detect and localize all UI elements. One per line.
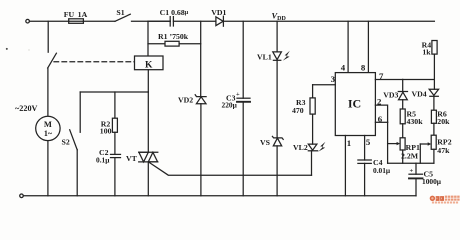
wire: R3 to VL2 [312,114,314,144]
scan speck [6,48,8,50]
svg-text:0.01μ: 0.01μ [373,166,391,175]
svg-text:3: 3 [331,74,336,84]
wire: pin1 to bottom rail [344,136,346,196]
wire: C2 to bottom rail [114,158,116,196]
capacitor C3 220u polarized [222,91,251,110]
svg-text:+: + [410,167,414,174]
svg-text:20k: 20k [437,117,450,126]
wire: pin3 to R3 [313,84,336,86]
potentiometer RP1 2.2M [388,138,420,161]
motor M 1~ [36,116,60,140]
wire: C3 to bottom rail [242,102,244,196]
wire: R5 to RP1 [402,124,404,138]
wire: node to C5 [415,163,417,174]
wire: R2 to C2 [114,132,116,154]
wire: fuse to S1 [83,20,115,22]
svg-text:~220V: ~220V [15,104,38,113]
wire: pin3 branch down through R3 [312,85,314,98]
svg-text:C1 0.68μ: C1 0.68μ [160,8,189,17]
svg-text:1000μ: 1000μ [422,177,442,186]
wire: rail down to relay contact [47,21,49,52]
svg-text:VT: VT [126,154,138,163]
wire: triac gate to VL2 branch [149,163,311,176]
switch S1 [115,8,130,21]
wire: VS to bottom rail [276,146,278,196]
wire: VDD down to VL1 [276,21,278,52]
fuse FU 1A [64,10,88,23]
wire: pin5 to C4 [364,136,366,161]
wire: pin2 step [375,105,387,122]
resistor R1 750k [148,32,201,46]
wire: VD4 to R6 [433,96,435,110]
wire: pin2/6 node down [387,122,389,163]
wire: RP2 to node wire [433,149,435,163]
svg-text:VD3: VD3 [383,91,398,100]
dashed link contact to coil K [54,61,135,63]
LED VL1 [257,51,290,62]
wire: rail down to IC pin4 [347,21,349,72]
svg-text:4: 4 [341,63,346,73]
wire: bottom node horizontal [388,162,434,164]
svg-text:100: 100 [100,126,112,135]
wire: K to junction [147,70,149,92]
svg-text:1: 1 [347,138,351,148]
watermark logo [430,196,460,204]
svg-text:VL1: VL1 [257,53,272,62]
zener diode VD2 [178,95,206,105]
op-amp/timer IC [335,73,375,136]
wire: C5 to bottom rail [415,178,417,195]
svg-text:FU 1A: FU 1A [64,10,88,19]
diode VD3 [383,91,407,100]
potentiometer RP2 47k [420,135,451,163]
wire: pin7 to R4 line [375,79,434,81]
resistor R3 470 [292,98,315,115]
svg-text:S2: S2 [62,138,70,147]
capacitor C2 0.1u [96,148,121,164]
wire: rail down to C3 [242,21,244,98]
capacitor C1 0.68u [160,8,189,26]
wire: pin6 [375,121,387,123]
wire: triac to bottom rail [147,162,149,196]
triac VT [126,152,158,163]
node: top-left input terminal [26,19,30,23]
svg-text:1k: 1k [422,48,431,57]
resistor R5 430k [400,109,423,126]
svg-text:K: K [145,61,153,71]
wire: RP1 to node wire [402,150,404,163]
svg-text:2.2M: 2.2M [401,151,419,160]
svg-text:VD1: VD1 [211,8,226,17]
svg-text:VDD: VDD [272,11,287,23]
wire: VD3 to R5 [402,100,404,109]
wire: VL1 to VS [276,60,278,138]
wire: C1 left branch down to R1 [148,20,170,22]
capacitor C4 0.01u [358,158,391,175]
resistor R2 100 [100,118,118,135]
relay coil K [135,56,164,71]
svg-text:IC: IC [348,97,361,111]
svg-text:1~: 1~ [44,129,53,138]
resistor R4 1k [422,41,438,57]
svg-text:47k: 47k [437,146,450,155]
wire: R4 to pin7 wire [433,54,435,89]
svg-text:8: 8 [361,63,366,73]
wire: C4 to bottom rail [364,163,366,195]
svg-text:M: M [44,119,52,129]
node: bottom-left terminal [20,194,24,198]
resistor R6 20k [431,110,450,126]
wire: R6 to RP2 [433,123,435,135]
diode VD4 [412,89,439,98]
capacitor C5 1000u polarized [409,167,442,186]
wire: motor to bottom rail [47,141,49,196]
wire: C1 to VD1 [173,20,216,22]
svg-text:430k: 430k [407,117,424,126]
svg-text:0.1μ: 0.1μ [96,155,110,164]
svg-text:VD4: VD4 [412,90,427,99]
svg-text:R1 ’750k: R1 ’750k [158,32,189,41]
wire: bottom rail [23,195,416,197]
wire: top rail terminal to fuse [29,20,68,22]
svg-text:VS: VS [260,138,270,147]
wire: VL2 to gate wire [311,151,313,175]
wire: S1 to C1 [132,20,171,22]
svg-text:220μ: 220μ [222,101,238,110]
LED VL2 [293,142,325,152]
wire: rail down to VD2 (C1 right branch) [200,21,202,96]
wire: R2 branch from junction wire [114,92,116,118]
wire: main vertical rail-R1-K [147,21,149,56]
svg-text:470: 470 [292,106,304,115]
svg-text:VD2: VD2 [178,96,193,105]
wire: VD3 branch from pin7 wire [402,79,404,91]
wire: junction horizontal to S2 corner [80,91,148,93]
svg-text:S1: S1 [116,8,124,17]
wire: S2 to bottom rail [76,150,78,196]
svg-text:5: 5 [366,137,371,147]
switch S2 [62,92,81,150]
wire: VD1 to VDD to R4 branch (top rail right) [223,20,434,22]
relay contact K (switch) [48,53,57,68]
svg-text:+: + [236,91,240,98]
wire: rail down to IC pin8 [367,21,369,72]
svg-text:VL2: VL2 [293,143,308,152]
wire: VD2 to bottom rail [200,104,202,196]
wire: contact to motor [47,68,49,116]
diode VD1 [211,8,226,26]
wire: junction down to triac [147,92,149,152]
zener diode VS [260,136,283,147]
